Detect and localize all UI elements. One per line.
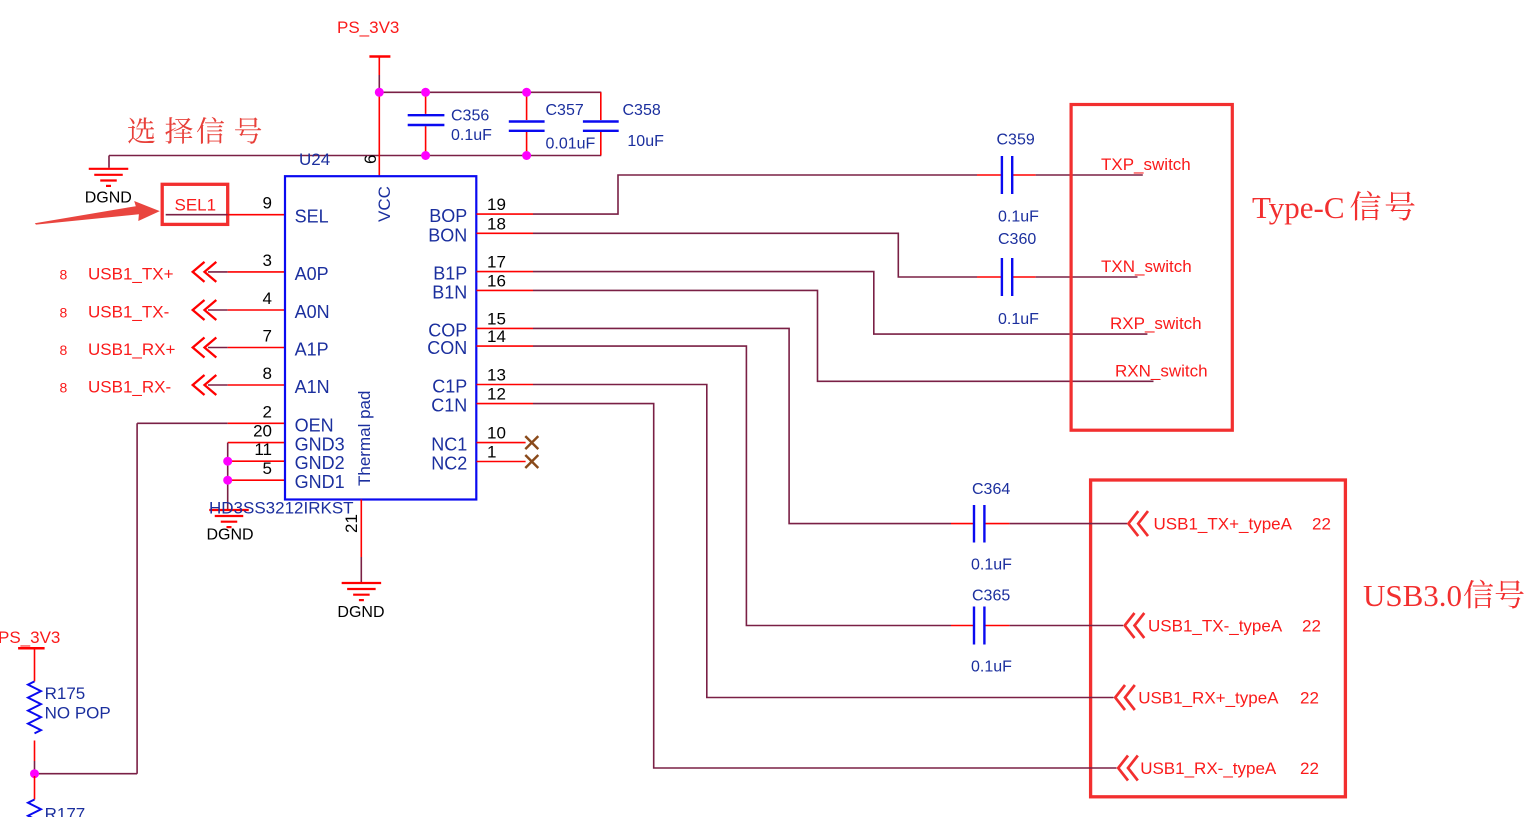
svg-text:22: 22 [1300,759,1319,778]
svg-text:18: 18 [487,214,506,233]
svg-text:A0P: A0P [295,264,329,284]
svg-text:DGND: DGND [337,604,384,621]
svg-text:DGND: DGND [207,527,254,544]
svg-text:TXN_switch: TXN_switch [1101,257,1192,276]
svg-text:16: 16 [487,271,506,290]
svg-text:B1P: B1P [433,264,467,284]
svg-text:SEL: SEL [295,207,329,227]
svg-text:11: 11 [254,440,272,459]
svg-text:U24: U24 [299,150,330,169]
svg-text:22: 22 [1302,617,1321,636]
svg-text:RXP_switch: RXP_switch [1110,314,1202,333]
svg-text:0.1uF: 0.1uF [998,311,1039,328]
svg-text:C356: C356 [451,108,489,125]
svg-text:USB1_TX-: USB1_TX- [88,303,169,322]
svg-text:4: 4 [263,289,272,308]
svg-text:USB1_TX+_typeA: USB1_TX+_typeA [1154,515,1293,534]
svg-text:USB1_RX-: USB1_RX- [88,378,171,397]
svg-text:GND1: GND1 [295,472,345,492]
svg-text:BON: BON [428,225,467,245]
svg-text:Type-C: Type-C [1252,190,1345,225]
svg-text:Thermal pad: Thermal pad [355,391,374,486]
svg-text:USB1_RX-_typeA: USB1_RX-_typeA [1140,759,1277,778]
svg-text:BOP: BOP [429,206,467,226]
svg-text:21: 21 [342,514,361,533]
svg-text:0.1uF: 0.1uF [451,127,492,144]
svg-text:R175: R175 [45,684,86,703]
svg-text:8: 8 [60,380,68,396]
svg-text:15: 15 [487,309,506,328]
svg-text:C364: C364 [972,481,1010,498]
svg-text:TXP_switch: TXP_switch [1101,155,1191,174]
svg-text:17: 17 [487,253,506,272]
svg-text:8: 8 [60,266,68,282]
svg-text:NC1: NC1 [431,435,467,455]
svg-text:B1N: B1N [432,282,467,302]
svg-text:7: 7 [263,327,272,346]
svg-text:RXN_switch: RXN_switch [1115,361,1208,380]
svg-text:22: 22 [1312,515,1331,534]
svg-text:9: 9 [263,194,272,213]
svg-text:5: 5 [263,459,272,478]
svg-text:USB3.0: USB3.0 [1363,578,1462,613]
svg-text:0.1uF: 0.1uF [971,557,1012,574]
svg-text:C1P: C1P [432,377,467,397]
svg-text:SEL1: SEL1 [175,196,217,215]
svg-text:GND3: GND3 [295,435,345,455]
svg-text:R177: R177 [45,805,86,817]
svg-text:22: 22 [1300,689,1319,708]
svg-text:8: 8 [60,305,68,321]
svg-text:DGND: DGND [85,190,132,207]
svg-text:8: 8 [60,342,68,358]
svg-text:PS_3V3: PS_3V3 [0,628,60,647]
svg-text:C365: C365 [972,588,1010,605]
svg-text:12: 12 [487,385,506,404]
svg-text:USB1_TX-_typeA: USB1_TX-_typeA [1148,617,1283,636]
svg-text:14: 14 [487,327,506,346]
svg-text:6: 6 [361,155,380,164]
svg-text:A1P: A1P [295,340,329,360]
svg-text:8: 8 [263,364,272,383]
svg-text:10uF: 10uF [627,133,664,150]
svg-text:1: 1 [487,443,496,462]
svg-text:3: 3 [263,251,272,270]
svg-text:10: 10 [487,424,506,443]
svg-text:USB1_TX+: USB1_TX+ [88,264,174,283]
svg-text:A1N: A1N [295,377,330,397]
svg-text:C357: C357 [546,102,584,119]
svg-text:2: 2 [263,402,272,421]
svg-text:VCC: VCC [375,186,394,222]
svg-text:A0N: A0N [295,302,330,322]
svg-text:C359: C359 [997,132,1035,149]
svg-text:C360: C360 [998,231,1036,248]
svg-text:13: 13 [487,366,506,385]
svg-text:19: 19 [487,195,506,214]
svg-text:0.01uF: 0.01uF [546,135,596,152]
svg-text:C358: C358 [623,102,661,119]
svg-text:C1N: C1N [431,396,467,416]
svg-text:USB1_RX+: USB1_RX+ [88,340,175,359]
svg-text:HD3SS3212IRKST: HD3SS3212IRKST [209,499,354,518]
svg-text:NO POP: NO POP [45,704,111,723]
svg-text:0.1uF: 0.1uF [998,209,1039,226]
svg-text:OEN: OEN [295,415,334,435]
svg-text:NC2: NC2 [431,454,467,474]
svg-text:20: 20 [253,422,272,441]
svg-text:PS_3V3: PS_3V3 [337,18,399,37]
svg-text:USB1_RX+_typeA: USB1_RX+_typeA [1138,689,1279,708]
svg-text:CON: CON [427,338,467,358]
svg-text:GND2: GND2 [295,453,345,473]
svg-text:0.1uF: 0.1uF [971,659,1012,676]
